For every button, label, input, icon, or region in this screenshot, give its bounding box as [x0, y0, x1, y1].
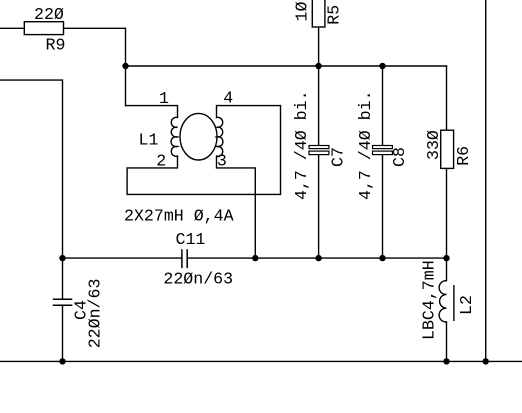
- wire: [485, 0, 487, 361]
- wire: [0, 80, 63, 299]
- transformer L1: [171, 113, 223, 160]
- svg-text:1Ø: 1Ø: [293, 2, 312, 22]
- svg-text:C8: C8: [390, 147, 409, 167]
- capacitor C8: [356, 90, 409, 200]
- capacitor C4: [53, 279, 105, 349]
- wire: [446, 322, 448, 362]
- node junction: [379, 255, 385, 261]
- node junction: [59, 255, 65, 261]
- svg-text:R5: R5: [325, 5, 344, 25]
- svg-text:1: 1: [159, 89, 169, 108]
- svg-text:R6: R6: [454, 146, 473, 166]
- svg-text:2X27mH Ø,4A: 2X27mH Ø,4A: [124, 207, 234, 226]
- svg-text:4,7 /4Ø bi.: 4,7 /4Ø bi.: [356, 90, 375, 200]
- wire: [62, 305, 64, 361]
- node junction: [59, 358, 65, 364]
- wire: [64, 28, 126, 105]
- wire: [318, 155, 320, 259]
- capacitor C11: [163, 230, 233, 289]
- resistor R6: [441, 130, 454, 168]
- inductor L2: [420, 260, 476, 340]
- svg-text:3: 3: [217, 152, 227, 171]
- node junction: [122, 63, 128, 69]
- node junction: [315, 255, 321, 261]
- wire: [63, 257, 182, 259]
- svg-text:4: 4: [223, 89, 233, 108]
- svg-text:4,7 /4Ø bi.: 4,7 /4Ø bi.: [292, 90, 311, 200]
- resistor R9: [24, 22, 63, 35]
- svg-text:22Øn/63: 22Øn/63: [163, 270, 233, 289]
- svg-text:2: 2: [156, 152, 166, 171]
- svg-text:C7: C7: [329, 147, 348, 167]
- node junction: [483, 358, 489, 364]
- wire: [126, 65, 447, 67]
- resistor R5: [312, 0, 325, 27]
- node junction: [443, 255, 449, 261]
- wire: [318, 27, 320, 146]
- svg-text:L1: L1: [139, 131, 159, 150]
- svg-text:22Øn/63: 22Øn/63: [85, 279, 104, 349]
- wire: [127, 106, 280, 195]
- wire: [217, 156, 256, 258]
- node junction: [252, 255, 258, 261]
- wire: [0, 27, 24, 29]
- wire: [382, 66, 384, 146]
- wire: [187, 257, 446, 259]
- wire: [446, 168, 448, 280]
- svg-text:R9: R9: [46, 36, 66, 55]
- node junction: [379, 63, 385, 69]
- wire: [446, 66, 448, 130]
- svg-text:C11: C11: [176, 230, 206, 249]
- node junction: [315, 63, 321, 69]
- node junction: [443, 358, 449, 364]
- svg-text:LBC4,7mH: LBC4,7mH: [420, 260, 439, 340]
- wire: [0, 360, 522, 362]
- wire: [382, 155, 384, 259]
- svg-text:22Ø: 22Ø: [34, 5, 64, 24]
- svg-text:33Ø: 33Ø: [424, 130, 443, 160]
- capacitor C7: [292, 90, 348, 200]
- wire: [126, 106, 178, 118]
- svg-text:L2: L2: [457, 295, 476, 315]
